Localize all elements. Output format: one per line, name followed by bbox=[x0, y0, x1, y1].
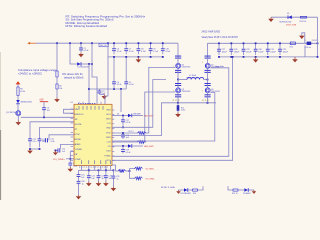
svg-text:D9 MMSZ: D9 MMSZ bbox=[243, 193, 251, 195]
wire VDDA vertical to IC bbox=[88, 64, 90, 104]
capacitor C21 1uF bbox=[77, 174, 86, 181]
junction C28 bottom bbox=[230, 56, 232, 58]
junction power gnd right bbox=[207, 102, 209, 104]
wire Q1 gate to IC EN pin bbox=[21, 116, 75, 118]
svg-text:R14 10k: R14 10k bbox=[300, 21, 307, 23]
junction C31 top bbox=[267, 42, 269, 44]
svg-text:0.1uF: 0.1uF bbox=[84, 50, 90, 52]
wire R2 bottom lead bbox=[56, 89, 58, 98]
wire snub network bbox=[228, 186, 233, 190]
annotation text compliance input range bbox=[18, 69, 57, 76]
svg-text:CSD19532: CSD19532 bbox=[211, 91, 220, 93]
zener diode D2 5.1V bbox=[16, 100, 32, 104]
svg-text:0.1u: 0.1u bbox=[33, 141, 37, 143]
junction C13 bottom bbox=[39, 148, 41, 150]
svg-text:1: 1 bbox=[305, 40, 306, 42]
capacitor C8 4.7uF input bbox=[137, 43, 147, 54]
capacitor C30 100uF output bbox=[254, 43, 265, 55]
junction C27 top bbox=[218, 42, 220, 44]
junction AGND / VOSNS bbox=[69, 158, 71, 160]
transistor Q5 drain bar bbox=[205, 83, 211, 86]
label L1 value bbox=[187, 75, 199, 79]
junction D1 / LDO pin vertical bbox=[88, 63, 90, 65]
junction C30 top bbox=[255, 42, 257, 44]
svg-text:Steady State: 25.68 V 3.00 A 3: Steady State: 25.68 V 3.00 A 347.08 KHz bbox=[202, 36, 239, 39]
capacitor C22 cluster bbox=[87, 170, 96, 181]
svg-text:0.1uF: 0.1uF bbox=[126, 152, 132, 154]
wire R1 top lead bbox=[56, 43, 58, 71]
capacitor C14 RT bbox=[45, 138, 48, 142]
capacitor C26 0.1uF bbox=[77, 181, 85, 186]
junction C7 bottom bbox=[125, 56, 127, 58]
svg-text:VIN: VIN bbox=[75, 109, 79, 111]
junction C29 bottom bbox=[243, 56, 245, 58]
junction C31 bottom bbox=[267, 56, 269, 58]
junction power gnd left bbox=[177, 102, 179, 104]
wire LO2 gate route bbox=[112, 93, 215, 142]
wire bias rail bbox=[89, 88, 126, 90]
svg-text:SLOPE: SLOPE bbox=[75, 124, 82, 126]
IC U1 LM5176 controller body bbox=[71, 102, 113, 165]
svg-text:U1: U1 bbox=[71, 102, 73, 104]
wire Q5 source to gnd rail bbox=[207, 95, 209, 103]
junction C18 bbox=[122, 132, 124, 134]
svg-text:100uF: 100uF bbox=[246, 51, 252, 53]
capacitor C19 boot2 bbox=[121, 146, 131, 154]
svg-text:Q1 2N7002: Q1 2N7002 bbox=[6, 112, 17, 114]
svg-text:VCC: VCC bbox=[106, 160, 111, 162]
wire HO1 riser bbox=[146, 67, 175, 133]
wire pin stub b6 bbox=[109, 166, 111, 171]
capacitor C16 filter bbox=[68, 163, 77, 168]
wire Q2 drain bbox=[177, 57, 179, 64]
junction C10 top bbox=[162, 42, 164, 44]
junction C6 top bbox=[113, 42, 115, 44]
svg-text:100uF: 100uF bbox=[222, 51, 228, 53]
svg-text:R15 10: R15 10 bbox=[232, 193, 238, 195]
wire SW1 sense bbox=[112, 80, 166, 128]
junction C15 ground bbox=[55, 150, 57, 152]
wire Q5 drain bbox=[207, 84, 209, 88]
wire Q4 top from output rail bbox=[207, 43, 209, 55]
ground output caps bbox=[253, 57, 259, 63]
junction EN wire / +5V cap bbox=[43, 116, 45, 118]
junction C30 bottom bbox=[255, 56, 257, 58]
wire FB up branch bbox=[130, 169, 136, 171]
transistor Q4 drain bar bbox=[205, 56, 211, 59]
ground power stage bbox=[175, 112, 181, 117]
svg-text:VOUT_RTN: VOUT_RTN bbox=[286, 25, 297, 27]
wire VIN top rail bbox=[36, 42, 178, 44]
svg-text:4.7uF: 4.7uF bbox=[153, 51, 159, 53]
svg-text:CSG: CSG bbox=[106, 151, 111, 153]
svg-text:MODE: MODE bbox=[75, 139, 82, 141]
transistor Q2 drain bar bbox=[175, 56, 181, 59]
ground below C2 bbox=[102, 94, 108, 99]
wire power ground rail bbox=[178, 102, 216, 104]
svg-text:VOSNS: VOSNS bbox=[75, 149, 83, 151]
wire FB node bbox=[126, 170, 130, 172]
wire D6 cathode bbox=[132, 115, 143, 117]
resistor R11 current sense 10m bbox=[177, 105, 186, 111]
svg-text:100uF: 100uF bbox=[283, 51, 289, 53]
junction VOSNS return tap bbox=[232, 56, 234, 58]
junction VIN rail / R1 divider bbox=[56, 42, 58, 44]
svg-text:4.7uF: 4.7uF bbox=[129, 84, 135, 86]
wire Rsense top bbox=[177, 103, 179, 105]
capacitor C15 SS bbox=[58, 148, 61, 152]
svg-text:VO_SNS+: VO_SNS+ bbox=[53, 159, 65, 161]
svg-text:1: 1 bbox=[202, 62, 203, 64]
wire Q2 source bbox=[177, 68, 179, 70]
junction C9 bottom bbox=[150, 56, 152, 58]
junction FB divider bbox=[129, 170, 131, 172]
svg-text:100uF: 100uF bbox=[270, 51, 276, 53]
resistor R9 divider top bbox=[135, 167, 143, 170]
wire VIN rail to IC VIN pin bbox=[105, 43, 108, 104]
capacitor C6 4.7uF input bbox=[112, 43, 122, 54]
capacitor C17 boot1 bbox=[121, 116, 131, 126]
svg-text:R16: R16 bbox=[193, 193, 196, 195]
wire FB pin bbox=[112, 165, 119, 171]
resistor R1 49.9k bbox=[56, 71, 58, 77]
capacitor C7 4.7uF input bbox=[124, 43, 134, 54]
transistor Q3 source bar bbox=[175, 94, 181, 97]
wire C25 down bbox=[112, 179, 114, 187]
wire LO1 riser bbox=[145, 92, 176, 142]
wire clamp to output rail bbox=[317, 17, 319, 43]
transistor Q5 source bar bbox=[205, 94, 211, 97]
ground snub bbox=[252, 190, 256, 194]
IC top pin numbers bbox=[78, 103, 96, 105]
svg-text:MURS120T3G: MURS120T3G bbox=[280, 21, 292, 23]
wire bottom pin bus bbox=[79, 169, 114, 171]
transistor Q1 2N7002 bbox=[16, 111, 21, 116]
diode D9 snub bbox=[244, 188, 248, 192]
wire Q5 SW2 to drain bar bbox=[207, 80, 209, 84]
diode D5 clamp bbox=[288, 15, 292, 19]
wire SW1 to inductor bbox=[178, 79, 187, 81]
ground C15 bbox=[53, 150, 58, 155]
junction VIN rail / C1 bbox=[80, 42, 82, 44]
wire Q4 to SW2 bbox=[207, 71, 209, 80]
wire clamp row bbox=[271, 16, 318, 18]
IC bottom pin names vertical bbox=[82, 160, 111, 164]
svg-text:+24VDC to +28VDC: +24VDC to +28VDC bbox=[18, 73, 42, 76]
svg-text:1: 1 bbox=[202, 91, 203, 93]
svg-text:D8 1N4148W: D8 1N4148W bbox=[181, 193, 192, 195]
wire R15 to D9 bbox=[238, 189, 244, 191]
svg-text:49.9k: 49.9k bbox=[20, 91, 25, 93]
resistor R14 clamp bbox=[300, 16, 307, 23]
wire PGND sense route bbox=[112, 103, 178, 136]
svg-text:100uF: 100uF bbox=[234, 51, 240, 53]
svg-text:.1u: .1u bbox=[101, 178, 104, 180]
wire SS pin loop bbox=[61, 144, 75, 148]
wire AGND riser bbox=[69, 152, 71, 163]
wire pin stub b3 bbox=[94, 166, 96, 171]
transistor Q3 low-side FET bbox=[176, 88, 191, 93]
net alias box 24V_IN bbox=[99, 43, 108, 47]
ground C16 bbox=[68, 167, 74, 172]
junction C32 top bbox=[279, 42, 281, 44]
wire Q3 SW to drain bar bbox=[177, 80, 179, 84]
ground bias net left bbox=[176, 190, 180, 194]
junction VIN rail / D1 branch bbox=[69, 42, 71, 44]
wire Q1 source to ground bbox=[17, 116, 19, 121]
capacitor C31 100uF output bbox=[266, 43, 277, 55]
junction VDDA / bias wire bbox=[88, 88, 90, 90]
wire Q4 drain bbox=[207, 57, 209, 64]
capacitor C4 4.7uF bbox=[112, 82, 122, 89]
capacitor C18 VCC bbox=[121, 133, 130, 139]
wire C15 left lead bbox=[55, 149, 57, 151]
wire R3 to D2 bbox=[17, 96, 19, 101]
IC top pin names vertical bbox=[79, 106, 103, 110]
wire C5 column upper bbox=[125, 57, 127, 82]
svg-text:delayed by 350mS: delayed by 350mS bbox=[64, 77, 84, 80]
wire AGND pin jumper bbox=[70, 151, 74, 153]
capacitor C3 1uF on +5V bbox=[42, 107, 51, 117]
junction C6 bottom bbox=[113, 56, 115, 58]
wire pin stub b2 bbox=[88, 166, 90, 171]
annotation text block top-left bbox=[66, 14, 146, 28]
wire bias net left bbox=[179, 189, 185, 191]
wire C14 left lead bbox=[43, 139, 45, 141]
junction bus b3 bbox=[98, 169, 100, 171]
svg-text:4.7uF: 4.7uF bbox=[117, 51, 123, 53]
junction output node bbox=[317, 42, 319, 44]
svg-text:2 2 2: 2 2 2 bbox=[202, 100, 209, 102]
ground cap pair bbox=[27, 149, 33, 154]
capacitor C32 100uF output bbox=[278, 43, 289, 55]
svg-text:4.7uF: 4.7uF bbox=[141, 51, 147, 53]
junction bus b2 bbox=[88, 169, 90, 171]
capacitor C12 0.1uF bbox=[28, 139, 36, 148]
wire UVLO loop lower bbox=[40, 128, 76, 139]
svg-text:10k: 10k bbox=[59, 88, 62, 90]
wire Rsense bottom bbox=[177, 111, 179, 113]
wire input cap bank bottom rail bbox=[108, 56, 163, 58]
junction VIN rail / VIN pin drop bbox=[107, 42, 109, 44]
wire Q3 source bbox=[177, 93, 179, 95]
power +5V supply bbox=[39, 99, 48, 108]
junction HB2 / boot cap bbox=[122, 145, 124, 147]
wire HB1 pin bbox=[112, 115, 128, 117]
wire Q3 source to gnd rail bbox=[177, 95, 179, 103]
svg-text:DITH: Dithering Feature Enable: DITH: Dithering Feature Enabled bbox=[66, 24, 108, 28]
resistor R2 10k bbox=[56, 84, 62, 90]
ground clamp left end bbox=[268, 17, 274, 22]
junction HB1 / boot cap bbox=[122, 115, 124, 117]
wire D9 out bbox=[249, 189, 254, 191]
svg-text:1uF: 1uF bbox=[62, 151, 65, 153]
capacitor C2 1uF with ground bbox=[98, 89, 107, 95]
capacitor C27 100uF output bbox=[217, 43, 228, 55]
svg-text:MMSZ5231B: MMSZ5231B bbox=[21, 102, 33, 104]
capacitor C25 filter bbox=[112, 170, 120, 180]
ground C26 bottom edge bbox=[76, 195, 82, 200]
resistor R12 on output rail bbox=[290, 42, 296, 49]
svg-text:R13 2m: R13 2m bbox=[305, 47, 312, 49]
junction C28 top bbox=[230, 42, 232, 44]
junction VIN rail / VCC branch bbox=[91, 42, 93, 44]
ground below Q1 bbox=[16, 121, 22, 126]
wire D8 to R16 bbox=[188, 189, 192, 191]
resistor R6 gate2 bbox=[138, 141, 147, 144]
junction C8 top bbox=[138, 42, 140, 44]
svg-text:EN/UVLO: EN/UVLO bbox=[75, 114, 84, 116]
wire Q3 drain bbox=[177, 84, 179, 88]
svg-text:1: 1 bbox=[173, 91, 174, 93]
capacitor C23 cluster bbox=[97, 170, 105, 181]
capacitor C28 100uF output bbox=[229, 43, 240, 55]
capacitor C10 4.7uF input bbox=[161, 43, 171, 54]
wire pin stub b4 bbox=[100, 166, 102, 171]
svg-text:CSD19532: CSD19532 bbox=[211, 67, 220, 69]
junction boot1 cap to SW1 bbox=[122, 126, 124, 128]
wire R1-R2 bbox=[56, 77, 58, 84]
wire Q2 to SW1 bbox=[177, 71, 179, 80]
junction bus b5 bbox=[113, 169, 115, 171]
wire shunt kelvin drop bbox=[304, 45, 306, 57]
svg-text:VO_SNS-: VO_SNS- bbox=[146, 178, 155, 180]
svg-text:24V_IN: 24V_IN bbox=[100, 45, 107, 47]
IC right pin names bbox=[105, 109, 112, 162]
capacitor C24 cluster bbox=[104, 170, 113, 181]
resistor R3 49.9k bbox=[17, 87, 25, 96]
junction SW1 node bbox=[177, 79, 179, 81]
junction C9 top bbox=[150, 42, 152, 44]
wire output node down bbox=[317, 43, 319, 57]
junction C8 bottom bbox=[138, 56, 140, 58]
wire Q5 source bbox=[207, 93, 209, 95]
svg-text:24.9k: 24.9k bbox=[51, 141, 55, 143]
svg-text:CSD19532: CSD19532 bbox=[182, 67, 191, 69]
wire boot feed down right of IC bbox=[120, 89, 122, 112]
resistor R15 snub bbox=[233, 189, 238, 191]
wire C4 column upper bbox=[113, 57, 115, 82]
transistor Q4 source bar bbox=[205, 70, 211, 73]
wire pin stub b5 bbox=[105, 166, 107, 171]
IC top pin stubs bbox=[79, 102, 101, 105]
transistor Q5 low-side FET bbox=[205, 88, 220, 93]
svg-text:0.010: 0.010 bbox=[181, 110, 185, 112]
junction C32 bottom bbox=[279, 56, 281, 58]
svg-text:2 2 2: 2 2 2 bbox=[173, 100, 180, 102]
svg-text:R18 1.00k: R18 1.00k bbox=[161, 187, 175, 189]
svg-text:.1u: .1u bbox=[116, 178, 119, 180]
transistor Q4 high-side FET bbox=[205, 63, 220, 68]
diode D8 bias bbox=[184, 188, 188, 192]
node VIN tap arrow bbox=[16, 81, 21, 87]
svg-text:4.7uF: 4.7uF bbox=[165, 51, 171, 53]
wire FB down branch bbox=[130, 171, 136, 178]
ground C24 bbox=[103, 182, 109, 187]
diode D7 bootstrap 2 bbox=[128, 144, 132, 148]
wire C2 to ground bbox=[100, 93, 105, 95]
svg-text:R12: R12 bbox=[290, 47, 293, 49]
svg-text:0.1uF: 0.1uF bbox=[126, 122, 132, 124]
ground input cap bank bbox=[136, 57, 142, 63]
annotation text top-right title bbox=[202, 30, 239, 39]
resistor R10 divider bottom bbox=[135, 177, 143, 180]
svg-text:HB2_SW2: HB2_SW2 bbox=[144, 146, 154, 148]
wire R16 right bbox=[198, 186, 204, 190]
wire VOSNS stub to IC bbox=[66, 158, 75, 160]
svg-text:+5V: +5V bbox=[39, 99, 44, 102]
svg-text:VO_SNS+: VO_SNS+ bbox=[146, 169, 155, 171]
svg-text:COMP: COMP bbox=[75, 159, 82, 161]
transistor Q2 source bar bbox=[175, 70, 181, 73]
svg-text:24VDC 4 AMP SURGE: 24VDC 4 AMP SURGE bbox=[202, 30, 221, 33]
capacitor C5 4.7uF bbox=[124, 82, 134, 89]
diode D1 B0520LW bbox=[77, 62, 89, 68]
svg-text:4.7uF: 4.7uF bbox=[129, 51, 135, 53]
junction SW2 node bbox=[207, 79, 209, 81]
svg-text:D6: D6 bbox=[117, 114, 119, 116]
ground C25 bbox=[111, 186, 117, 191]
wire VOSNS return long bbox=[112, 57, 233, 160]
junction C29 top bbox=[243, 42, 245, 44]
capacitor C1 0.1uF bbox=[79, 43, 89, 52]
ground output right bbox=[292, 57, 298, 63]
ground C23 bbox=[96, 182, 102, 187]
svg-text:R5 2.2: R5 2.2 bbox=[129, 131, 134, 133]
svg-text:D1 B0520LW: D1 B0520LW bbox=[77, 66, 88, 68]
wire RT pin loop bbox=[49, 135, 75, 141]
transistor Q3 drain bar bbox=[175, 83, 181, 86]
wire output bottom rail bbox=[219, 56, 318, 58]
resistor R16 bias bbox=[193, 189, 198, 191]
svg-text:DITH: DITH bbox=[75, 134, 80, 136]
svg-text:D5: D5 bbox=[287, 13, 289, 15]
ground below C1 bbox=[78, 52, 84, 57]
junction C7 top bbox=[125, 42, 127, 44]
capacitor C29 100uF output bbox=[242, 43, 253, 55]
wire UVLO loop upper bbox=[30, 122, 75, 139]
wire D2 to Q1 drain bbox=[17, 104, 19, 110]
svg-text:.1u: .1u bbox=[81, 184, 84, 186]
capacitor C13 1uF bbox=[38, 139, 47, 148]
wire C21 column bbox=[78, 170, 80, 174]
wire output top rail bbox=[208, 42, 318, 44]
svg-text:XAL1060-103: XAL1060-103 bbox=[187, 76, 199, 79]
junction C27 bottom bbox=[218, 56, 220, 58]
svg-text:1: 1 bbox=[173, 66, 174, 68]
inductor L1 bbox=[187, 77, 208, 79]
IC right pin stubs bbox=[112, 110, 114, 161]
IC left pin names bbox=[75, 109, 84, 161]
resistor R8 FB bbox=[118, 170, 126, 173]
inverted ground flag above rail bbox=[299, 33, 305, 44]
IC left pin stubs bbox=[71, 109, 73, 160]
capacitor C9 4.7uF input bbox=[149, 43, 159, 54]
junction C10 bottom bbox=[162, 56, 164, 58]
wire VCC vertical bbox=[92, 43, 97, 104]
page left edge line bbox=[0, 52, 2, 130]
wire D7 cathode bbox=[132, 145, 143, 147]
wire HO1 gate drive bbox=[112, 132, 139, 134]
junction bus b4 bbox=[105, 169, 107, 171]
VIN input port arrow bbox=[27, 42, 36, 45]
svg-text:CSD19532: CSD19532 bbox=[182, 91, 191, 93]
wire cap pair bottom bbox=[30, 148, 40, 150]
transistor Q2 high-side FET bbox=[176, 63, 191, 68]
svg-text:4.7uF: 4.7uF bbox=[117, 84, 123, 86]
wire HB2 pin bbox=[112, 145, 128, 147]
svg-text:AGND: AGND bbox=[75, 143, 81, 146]
